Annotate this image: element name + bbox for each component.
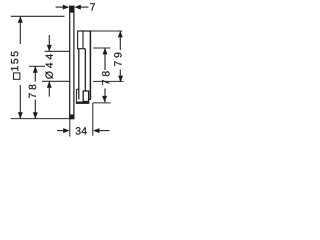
dimension 7 line xyxy=(56,6,89,8)
dimension 155 line xyxy=(19,16,21,118)
valve body behind plate xyxy=(76,31,91,104)
label 79 xyxy=(114,53,121,66)
dimension 79 right line xyxy=(119,31,121,82)
wire top extension line (plate top, for 155) xyxy=(11,15,65,17)
body upper flange right edge xyxy=(82,32,84,49)
dimension 34 line xyxy=(57,130,110,132)
label 155 xyxy=(11,51,18,70)
body cartridge right edge xyxy=(84,49,86,91)
body lower-left step xyxy=(76,88,78,90)
label 78 right xyxy=(102,71,109,84)
wire knob bottom extension right xyxy=(93,80,124,82)
dimension 78 right line xyxy=(104,48,106,102)
body lower-left edge xyxy=(75,89,77,101)
wire centerline extension left xyxy=(29,65,45,67)
wire vertical extension for 34 right xyxy=(92,103,94,136)
label 7 xyxy=(90,3,95,10)
label 78 left xyxy=(29,85,36,98)
label 34 xyxy=(76,127,87,134)
wire knob top extension left xyxy=(45,50,70,52)
dimension 78 left line xyxy=(34,66,36,118)
body cartridge left edge xyxy=(78,49,80,100)
wire box top extension (for 79) xyxy=(91,30,123,32)
wire bottom extension right (for 78) xyxy=(93,102,111,104)
body bottom cap xyxy=(76,102,89,104)
body nut rect xyxy=(83,91,88,102)
body step xyxy=(77,48,85,50)
wire vertical extension for 34 left xyxy=(69,119,71,137)
wire top extension right (for 78) xyxy=(93,47,111,49)
plate bar side view xyxy=(69,6,74,119)
label diameter 44 xyxy=(45,54,53,79)
label square symbol of 155 xyxy=(14,73,20,79)
body right foot xyxy=(89,99,91,101)
wire bottom extension line (plate bottom) xyxy=(11,118,70,120)
body upper flange left edge xyxy=(77,31,79,49)
body right edge xyxy=(89,31,91,100)
dimension diameter 44 line xyxy=(48,35,50,97)
body top edge xyxy=(77,30,91,32)
wire knob bottom extension left xyxy=(42,80,69,82)
